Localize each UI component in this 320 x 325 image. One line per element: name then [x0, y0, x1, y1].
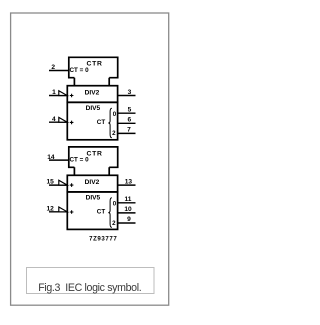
- svg-text:CT = 0: CT = 0: [70, 157, 90, 164]
- svg-text:0: 0: [113, 200, 117, 207]
- svg-text:7: 7: [127, 127, 131, 134]
- svg-text:13: 13: [125, 179, 133, 186]
- svg-text:7Z93777: 7Z93777: [89, 235, 117, 242]
- svg-text:CT: CT: [97, 209, 106, 216]
- svg-text:6: 6: [127, 116, 131, 123]
- svg-text:CTR: CTR: [87, 150, 103, 157]
- svg-text:4: 4: [52, 116, 56, 123]
- svg-text:DIV5: DIV5: [86, 195, 101, 202]
- svg-text:10: 10: [124, 206, 132, 213]
- svg-text:0: 0: [113, 111, 117, 118]
- svg-text:Fig.3 IEC logic symbol.: Fig.3 IEC logic symbol.: [38, 282, 141, 294]
- svg-text:2: 2: [112, 130, 116, 137]
- svg-text:DIV5: DIV5: [86, 105, 101, 112]
- svg-text:9: 9: [127, 216, 131, 223]
- svg-text:2: 2: [112, 220, 116, 227]
- svg-text:11: 11: [125, 196, 132, 203]
- svg-text:CT: CT: [97, 119, 106, 126]
- svg-text:CTR: CTR: [87, 61, 103, 68]
- svg-text:DIV2: DIV2: [85, 89, 100, 96]
- svg-text:12: 12: [47, 206, 55, 213]
- svg-text:1: 1: [52, 89, 56, 96]
- svg-text:5: 5: [128, 106, 132, 113]
- svg-text:3: 3: [128, 89, 132, 96]
- svg-text:14: 14: [47, 154, 55, 161]
- svg-text:DIV2: DIV2: [85, 179, 100, 186]
- svg-text:15: 15: [47, 179, 55, 186]
- svg-text:2: 2: [51, 64, 55, 71]
- svg-text:CT = 0: CT = 0: [70, 67, 90, 74]
